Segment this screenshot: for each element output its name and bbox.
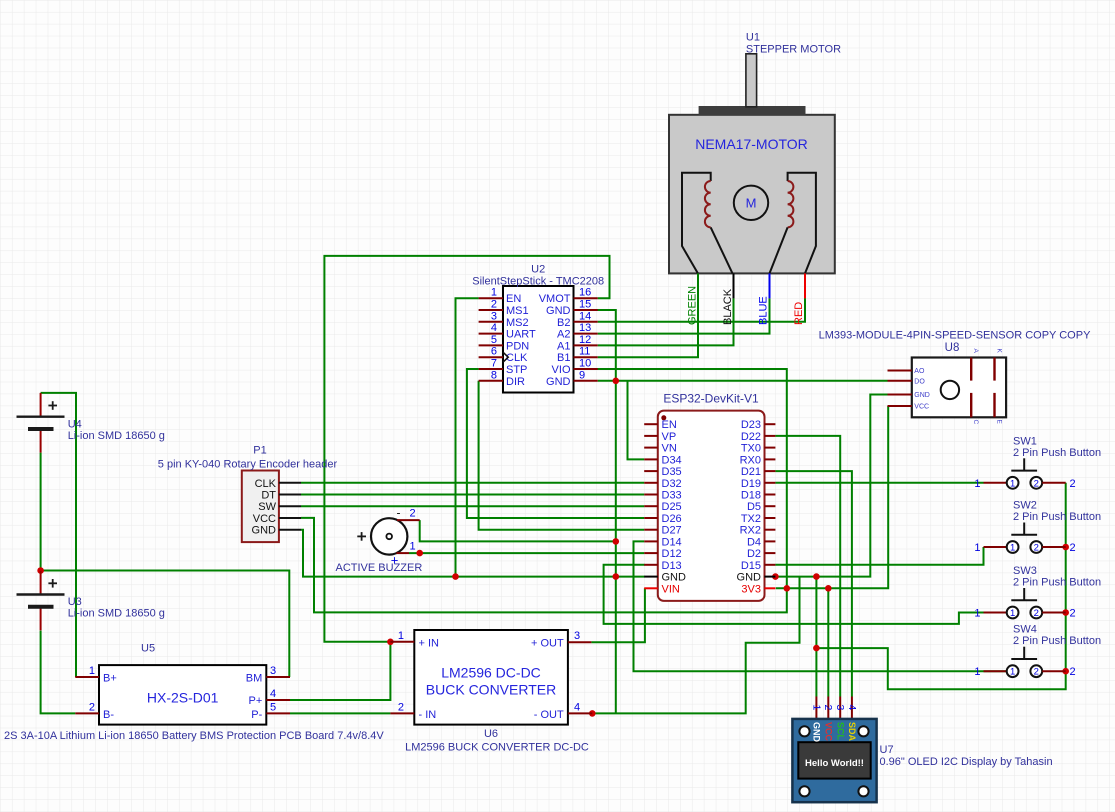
wire HX-2S-D01 P- to LM2596 -IN (290, 712, 390, 714)
svg-text:2: 2 (89, 701, 95, 713)
U2 pin 8 DIR stub (479, 380, 503, 382)
junction OLED GND at rail (813, 573, 820, 580)
svg-text:2: 2 (1034, 543, 1039, 554)
P1 pin GND stub (279, 529, 301, 531)
svg-text:2: 2 (1070, 608, 1076, 620)
svg-text:VCC: VCC (914, 404, 929, 411)
wire ESP32 D19 to SW1 pin1 (775, 482, 983, 484)
wire ESP32 D21 to OLED SDA (775, 471, 852, 696)
svg-text:VIO: VIO (552, 364, 571, 376)
U8 pin VCC stub (888, 405, 912, 407)
junction buzzer- at D14 row (613, 538, 620, 545)
wire LM2596 +OUT to ESP32 VIN (591, 588, 645, 642)
svg-text:15: 15 (579, 299, 591, 311)
svg-text:SW2: SW2 (1013, 500, 1037, 512)
battery U3 negative stub (40, 607, 42, 631)
svg-text:GND: GND (546, 376, 571, 388)
ESP32 pin D5 (right) stub (765, 505, 776, 507)
stepper motor U1 top cap (699, 106, 806, 115)
svg-text:2: 2 (398, 701, 404, 713)
U2 pin 7 STP stub (479, 368, 503, 370)
svg-text:+ OUT: + OUT (531, 637, 564, 649)
sensor U8 box (912, 358, 1006, 418)
motor wire GREEN segment (697, 273, 699, 298)
ESP32 pin D21 (right) stub (765, 470, 776, 472)
svg-text:D32: D32 (662, 478, 682, 490)
SW3 pin 2 stub (1042, 612, 1066, 614)
module ESP32 box (658, 411, 765, 601)
svg-text:B-: B- (103, 709, 114, 721)
junction U2 pin9 GND (613, 378, 620, 385)
ESP32 pin D27 (left) stub (644, 529, 658, 531)
ESP32 pin GND (right) stub (765, 576, 776, 578)
OLED U7 display area (798, 742, 870, 778)
wire D34 link from pin9 row (628, 381, 645, 460)
svg-text:12: 12 (579, 334, 591, 346)
svg-text:1: 1 (974, 478, 980, 490)
OLED U7 board (792, 719, 876, 802)
svg-text:GND: GND (546, 305, 571, 317)
svg-text:2 Pin Push Button: 2 Pin Push Button (1013, 635, 1101, 647)
SW2 pin 1 stub (984, 546, 1007, 548)
motor wire BLUE segment (769, 273, 771, 298)
ESP32 pin 3V3 (right) stub (765, 587, 776, 589)
U2 pin 16 VMOT stub (574, 297, 598, 299)
U6 pin 4 -OUT stub (568, 712, 592, 714)
svg-text:D33: D33 (662, 490, 682, 502)
svg-text:1: 1 (398, 630, 404, 642)
ESP32 pin D2 (right) stub (765, 552, 776, 554)
svg-text:D14: D14 (662, 536, 682, 548)
svg-text:1: 1 (974, 542, 980, 554)
svg-text:GND: GND (914, 392, 930, 399)
svg-text:U6: U6 (484, 728, 498, 740)
svg-text:EN: EN (662, 419, 677, 431)
U6 pin 1 +IN stub (390, 641, 414, 643)
wire U2 EN to GND rail (456, 298, 479, 576)
svg-text:1: 1 (1010, 667, 1015, 678)
svg-text:5 pin KY-040 Rotary Encoder he: 5 pin KY-040 Rotary Encoder header (158, 458, 338, 470)
svg-text:K: K (995, 349, 1002, 354)
wire battery U4 + to HX-2S-D01 B+ (41, 393, 76, 677)
svg-text:2: 2 (1034, 478, 1039, 489)
motor wire BLACK segment (733, 273, 735, 298)
wire ESP32 D14 to SW4 pin1 (634, 541, 1007, 671)
svg-text:D19: D19 (741, 478, 761, 490)
SW4 pin 1 circle (1007, 665, 1019, 677)
SW3 pin 1 stub (984, 612, 1007, 614)
wire P1 CLK to ESP32 D32 (301, 482, 644, 484)
svg-text:16: 16 (579, 287, 591, 299)
svg-text:9: 9 (579, 369, 585, 381)
wire ESP32 3V3 row to U8 VCC (776, 406, 888, 588)
ESP32 pin TX0 (right) stub (765, 447, 776, 449)
battery U3 negative plate (28, 605, 54, 609)
svg-text:U2: U2 (531, 264, 545, 276)
svg-text:5: 5 (491, 334, 497, 346)
svg-text:+ IN: + IN (419, 637, 440, 649)
svg-text:2: 2 (822, 705, 834, 711)
U2 pin 2 MS1 stub (479, 309, 503, 311)
svg-text:1: 1 (89, 665, 95, 677)
SW1 pin 1 stub (984, 482, 1007, 484)
svg-text:BLUE: BLUE (758, 296, 770, 325)
svg-text:DT: DT (261, 490, 276, 502)
ESP32 pin D4 (right) stub (765, 540, 776, 542)
wire P1 SW to ESP32 D25 (301, 505, 644, 507)
P1 pin VCC stub (279, 517, 301, 519)
svg-text:2 Pin Push Button: 2 Pin Push Button (1013, 447, 1101, 459)
svg-text:4: 4 (270, 688, 276, 700)
svg-text:NEMA17-MOTOR: NEMA17-MOTOR (695, 136, 808, 152)
wire motor RED to U2 B2 (804, 297, 806, 299)
junction battery mid (37, 567, 44, 574)
SW4 pin 2 stub (1042, 670, 1066, 672)
U2 pin 6 CLK stub (479, 356, 503, 358)
svg-text:2: 2 (1034, 608, 1039, 619)
wire motor BLACK to U2 A1 (598, 298, 734, 345)
svg-text:VCC: VCC (253, 513, 276, 525)
SW4 pin 2 circle (1030, 665, 1042, 677)
svg-text:5: 5 (270, 701, 276, 713)
svg-text:GND: GND (252, 525, 277, 537)
ESP32 pin D23 (right) stub (765, 423, 776, 425)
svg-text:1: 1 (974, 608, 980, 620)
U5 pin 2 B- stub (75, 712, 99, 714)
ESP32 pin D35 (left) stub (644, 470, 658, 472)
svg-text:D15: D15 (741, 560, 761, 572)
svg-text:ESP32-DevKit-V1: ESP32-DevKit-V1 (663, 392, 759, 406)
junction 3V3 at VIO riser (784, 585, 791, 592)
svg-text:SilentStepStick - TMC2208: SilentStepStick - TMC2208 (472, 275, 604, 287)
svg-text:Li-ion SMD 18650 g: Li-ion SMD 18650 g (68, 608, 165, 620)
ESP32 pin D18 (right) stub (765, 494, 776, 496)
svg-text:SW1: SW1 (1013, 435, 1037, 447)
svg-text:GND: GND (662, 572, 687, 584)
svg-text:- OUT: - OUT (534, 709, 564, 721)
wire VMOT net: U2 pin16 to LM2596 +IN rail (324, 256, 609, 642)
junction OLED GND at switch chain (813, 645, 820, 652)
svg-text:U8: U8 (945, 342, 960, 354)
U5 pin 1 B+ stub (75, 676, 99, 678)
wire motor GREEN to U2 B1 (598, 273, 698, 357)
svg-text:E: E (995, 420, 1002, 425)
svg-text:D35: D35 (662, 466, 682, 478)
wire P+ riser: HX-2S-D01 P+ to +IN node (290, 642, 390, 700)
svg-text:BUCK CONVERTER: BUCK CONVERTER (426, 682, 556, 698)
ESP32 pin VIN (left) stub (644, 587, 658, 589)
ESP32 pin RX2 (right) stub (765, 529, 776, 531)
svg-text:1: 1 (1010, 478, 1015, 489)
wire buzzer pin2 to GND junction and ESP32 D14 row (420, 520, 616, 541)
svg-text:VMOT: VMOT (539, 293, 571, 305)
wire OLED GND riser (815, 577, 817, 697)
svg-text:UART: UART (506, 329, 536, 341)
svg-text:VCC: VCC (823, 722, 833, 742)
svg-text:Li-ion SMD 18650 g: Li-ion SMD 18650 g (68, 430, 165, 442)
svg-text:3V3: 3V3 (741, 583, 761, 595)
svg-text:TX0: TX0 (741, 443, 761, 455)
junction GND rail at U2 GND riser (613, 573, 620, 580)
wire ESP32 right GND to U8 GND (775, 395, 887, 577)
motor M circle (734, 186, 768, 220)
junction EN at GND rail (452, 573, 459, 580)
svg-text:4: 4 (491, 322, 497, 334)
junction SW2 pin2 (1062, 544, 1069, 551)
svg-text:U1: U1 (746, 32, 760, 44)
svg-text:SW4: SW4 (1013, 624, 1037, 636)
ESP32 pin D34 (left) stub (644, 458, 658, 460)
wire battery mid junction to HX-2S-D01 BM (41, 571, 290, 678)
motor right coil outline (788, 173, 816, 274)
SW2 pin 2 circle (1030, 541, 1042, 553)
svg-text:2: 2 (410, 508, 416, 520)
U2 pin 12 A1 stub (574, 344, 598, 346)
battery U4 negative plate (28, 427, 54, 431)
svg-text:SCL: SCL (835, 722, 845, 741)
ESP32 pin D32 (left) stub (644, 482, 658, 484)
wire battery U4 - to mid junction (40, 453, 42, 571)
svg-text:2: 2 (1070, 542, 1076, 554)
U2 pin 11 B1 stub (574, 356, 598, 358)
svg-text:3: 3 (270, 665, 276, 677)
motor wire RED segment (804, 273, 806, 298)
SW2 pin 1 circle (1007, 541, 1019, 553)
svg-text:BM: BM (246, 673, 263, 685)
U5 pin 5 P- stub (266, 712, 290, 714)
svg-text:0.96" OLED I2C Display by Taha: 0.96" OLED I2C Display by Tahasin (880, 756, 1053, 768)
svg-text:PDN: PDN (506, 340, 529, 352)
ESP32 pin VN (left) stub (644, 447, 658, 449)
svg-text:D5: D5 (747, 501, 761, 513)
svg-text:2: 2 (1034, 667, 1039, 678)
svg-text:STEPPER MOTOR: STEPPER MOTOR (746, 43, 841, 55)
wire U2 GND pin15 down to -OUT rail (594, 310, 616, 713)
SW2 actuator (1023, 523, 1025, 535)
svg-text:8: 8 (491, 369, 497, 381)
svg-text:VP: VP (662, 431, 677, 443)
SW4 actuator (1023, 647, 1025, 659)
svg-text:3: 3 (491, 310, 497, 322)
U2 pin 13 A2 stub (574, 333, 598, 335)
wire U2 VIO to 3V3 node and P1 VCC (301, 369, 787, 612)
U5 pin 3 BM stub (266, 676, 290, 678)
ESP32 pin D19 (right) stub (765, 482, 776, 484)
svg-text:D12: D12 (662, 548, 682, 560)
junction SW4 pin2 (1062, 668, 1069, 675)
OLED U7 pin stubs (815, 697, 817, 719)
svg-text:B1: B1 (557, 352, 570, 364)
SW4 pin 1 stub (984, 670, 1007, 672)
U2 pin 10 VIO stub (574, 368, 598, 370)
svg-text:D22: D22 (741, 431, 761, 443)
U2 pin 1 EN stub (479, 297, 503, 299)
svg-text:7: 7 (491, 358, 497, 370)
battery U4 positive stub (40, 393, 42, 417)
svg-text:EN: EN (506, 293, 521, 305)
ESP32 pin D33 (left) stub (644, 494, 658, 496)
U8 pin DO stub (888, 380, 912, 382)
svg-text:AO: AO (914, 368, 925, 375)
battery U3 positive stub (40, 571, 42, 595)
svg-text:HX-2S-D01: HX-2S-D01 (147, 690, 219, 706)
junction -OUT pin (589, 710, 596, 717)
svg-text:LM2596 BUCK CONVERTER DC-DC: LM2596 BUCK CONVERTER DC-DC (405, 742, 589, 754)
ESP32 pin GND (left) stub (644, 576, 658, 578)
P1 pin SW stub (279, 505, 301, 507)
wire U2 GND pin9 / U8 DO row (598, 380, 888, 382)
svg-text:1: 1 (1010, 608, 1015, 619)
wire battery U3 - to HX-2S-D01 B- (41, 631, 76, 714)
junction ESP32 right GND stub (772, 573, 779, 580)
svg-text:GND: GND (812, 722, 822, 743)
motor right coil windings (788, 181, 794, 227)
svg-text:U7: U7 (880, 744, 894, 756)
U6 pin 2 -IN stub (390, 712, 414, 714)
svg-text:ACTIVE BUZZER: ACTIVE BUZZER (336, 562, 423, 574)
ESP32 pin D13 (left) stub (644, 564, 658, 566)
svg-text:SDA: SDA (847, 722, 857, 742)
BMS U5 box (99, 665, 266, 725)
svg-text:VIN: VIN (662, 583, 680, 595)
U2 pin 3 MS2 stub (479, 321, 503, 323)
motor left coil windings (705, 181, 711, 227)
ESP32 pin D22 (right) stub (765, 435, 776, 437)
svg-text:C: C (972, 420, 979, 425)
wire P1 DT to ESP32 D33 (301, 494, 644, 496)
svg-text:RED: RED (793, 302, 805, 325)
U2 pin 5 PDN stub (479, 344, 503, 346)
ESP32 pin TX2 (right) stub (765, 517, 776, 519)
svg-text:LM393-MODULE-4PIN-SPEED-SENSOR: LM393-MODULE-4PIN-SPEED-SENSOR COPY COPY (819, 330, 1091, 342)
svg-text:U3: U3 (68, 596, 82, 608)
svg-text:DO: DO (914, 378, 925, 385)
ESP32 pin1 marker (661, 415, 666, 420)
SW1 pin 2 circle (1030, 477, 1042, 489)
buzzer pin 1 stub (396, 552, 409, 554)
svg-text:RX2: RX2 (740, 525, 761, 537)
battery U4 positive plate (17, 416, 65, 418)
driver U2 box (503, 286, 574, 393)
svg-text:D25: D25 (662, 501, 682, 513)
SW3 pin 2 circle (1030, 607, 1042, 619)
svg-text:13: 13 (579, 322, 591, 334)
svg-text:D34: D34 (662, 454, 682, 466)
svg-text:DIR: DIR (506, 376, 525, 388)
wire buzzer pin1 to ESP32 D12 (409, 552, 644, 554)
U2 pin 9 GND stub (574, 380, 598, 382)
ESP32 pin D26 (left) stub (644, 517, 658, 519)
svg-text:4: 4 (574, 701, 580, 713)
svg-text:LM2596 DC-DC: LM2596 DC-DC (441, 665, 541, 681)
svg-text:CLK: CLK (255, 478, 277, 490)
svg-text:1: 1 (410, 541, 416, 553)
svg-text:2: 2 (491, 299, 497, 311)
svg-text:D13: D13 (662, 560, 682, 572)
buzzer pin 2 stub (397, 519, 420, 521)
svg-text:MS1: MS1 (506, 305, 529, 317)
SW1 actuator (1023, 458, 1025, 470)
buzzer inner circle (386, 534, 392, 540)
battery U3 positive plate (17, 593, 65, 595)
U2 pin 4 UART stub (479, 333, 503, 335)
wire motor BLUE to U2 A2 (598, 298, 770, 333)
svg-text:3: 3 (834, 705, 846, 711)
ESP32 pin D25 (left) stub (644, 505, 658, 507)
wire GND rail branch to LM2596 -OUT (592, 577, 799, 714)
stepper motor U1 shaft (746, 54, 757, 107)
SW1 pin 2 stub (1042, 482, 1066, 484)
svg-text:CLK: CLK (506, 352, 528, 364)
U8 pin AO stub (888, 370, 912, 372)
ESP32 pin RX0 (right) stub (765, 458, 776, 460)
svg-text:D2: D2 (747, 548, 761, 560)
wire ESP32 D22 to OLED SCL (775, 436, 840, 697)
svg-text:D21: D21 (741, 466, 761, 478)
svg-text:U4: U4 (68, 418, 82, 430)
svg-text:D23: D23 (741, 419, 761, 431)
U8 internal pin K line (993, 358, 995, 381)
wire OLED VCC riser (827, 588, 829, 696)
U2 pin 15 GND stub (574, 309, 598, 311)
svg-text:B2: B2 (557, 317, 570, 329)
svg-text:Hello World!!: Hello World!! (805, 758, 864, 769)
svg-text:D4: D4 (747, 536, 761, 548)
svg-text:D26: D26 (662, 513, 682, 525)
U8 pin GND stub (888, 394, 912, 396)
header P1 box (242, 471, 279, 543)
svg-text:2 Pin Push Button: 2 Pin Push Button (1013, 577, 1101, 589)
U2 pin 14 B2 stub (574, 321, 598, 323)
P1 pin CLK stub (279, 482, 301, 484)
P1 pin DT stub (279, 494, 301, 496)
svg-text:4: 4 (846, 705, 858, 711)
svg-text:A1: A1 (557, 340, 570, 352)
svg-text:1: 1 (1010, 543, 1015, 554)
svg-text:SW3: SW3 (1013, 565, 1037, 577)
svg-text:BLACK: BLACK (722, 288, 734, 325)
svg-text:2S 3A-10A Lithium Li-ion 18650: 2S 3A-10A Lithium Li-ion 18650 Battery B… (4, 730, 384, 742)
SW3 actuator (1023, 588, 1025, 600)
stepper motor U1 body (669, 115, 835, 274)
wire U2 STP to ESP32 D26 (467, 369, 644, 518)
junction SW3 pin2 (1062, 609, 1069, 616)
buzzer body circle (371, 518, 407, 554)
OLED U7 mounting holes (799, 726, 809, 736)
wire GND chain to push buttons pin2 (816, 483, 1065, 689)
SW1 pin 1 circle (1007, 477, 1019, 489)
svg-text:1: 1 (810, 705, 822, 711)
wire P1 GND to GND rail to ESP32 GND (301, 530, 645, 577)
svg-text:M: M (746, 196, 757, 211)
svg-text:GREEN: GREEN (687, 286, 699, 325)
svg-text:U5: U5 (141, 643, 155, 655)
ESP32 pin D12 (left) stub (644, 552, 658, 554)
svg-text:2: 2 (1070, 478, 1076, 490)
svg-text:- IN: - IN (419, 709, 437, 721)
junction OLED VCC at 3V3 row (825, 585, 832, 592)
svg-text:GND: GND (737, 572, 762, 584)
svg-text:P-: P- (251, 709, 262, 721)
svg-text:A: A (972, 349, 979, 354)
svg-text:2: 2 (1070, 666, 1076, 678)
svg-text:A2: A2 (557, 329, 570, 341)
svg-text:14: 14 (579, 310, 591, 322)
ESP32 pin EN (left) stub (644, 423, 658, 425)
svg-text:SW: SW (258, 501, 276, 513)
battery U4 plus sign (48, 405, 57, 407)
U2 CLK clock marker (503, 352, 508, 362)
